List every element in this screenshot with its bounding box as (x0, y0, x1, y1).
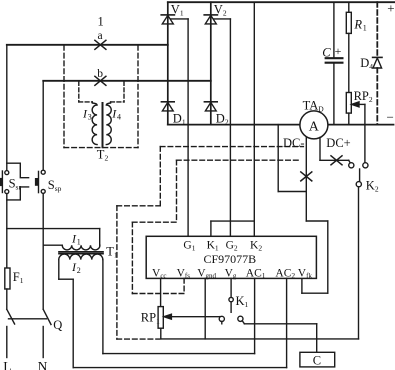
big controller dashed box (117, 147, 304, 340)
svg-text:1: 1 (77, 238, 81, 247)
svg-text:+: + (387, 1, 394, 16)
T2 inner dashed connections (79, 82, 124, 102)
pushbutton S_sp (35, 170, 45, 309)
svg-text:C: C (313, 353, 321, 367)
potentiometer RP2 (346, 93, 365, 163)
svg-text:DC-: DC- (283, 136, 305, 150)
svg-text:+: + (335, 44, 342, 58)
pushbutton S_sr (0, 163, 29, 268)
wire K2 riser from + bus to chip pin K2 (253, 2, 255, 236)
contact circle K1 right to C box (238, 316, 317, 352)
thyristor V2 (204, 15, 217, 24)
wire V1 gate to G1 (171, 19, 188, 236)
wire S_sr column from a-line (6, 45, 8, 171)
wire top (+) bus (168, 1, 395, 3)
svg-text:−: − (387, 109, 394, 124)
switch K2 (161, 169, 362, 339)
terminal X b (95, 76, 106, 85)
svg-text:4: 4 (117, 113, 121, 122)
connector contact circles DC+ / RP2 (349, 163, 354, 168)
box C (300, 352, 335, 367)
terminal X DC- (301, 172, 312, 181)
svg-text:Q: Q (53, 318, 62, 332)
wire a-line (7, 44, 168, 46)
T1 winding I2 (59, 254, 103, 260)
svg-text:1: 1 (363, 23, 367, 32)
T2 winding I4 (106, 102, 111, 145)
svg-text:L: L (3, 359, 11, 370)
wire V2-D2 column (210, 2, 212, 124)
switch K1 blade from Vg (229, 278, 233, 312)
thyristor V1 (161, 15, 174, 24)
svg-text:1: 1 (98, 15, 104, 29)
wire DC+ sense (320, 137, 350, 162)
terminal X a (95, 40, 106, 49)
wire negative bus (168, 124, 394, 126)
wire DC- sense (278, 125, 328, 294)
svg-text:A: A (309, 120, 320, 135)
diode D1 (161, 102, 174, 111)
capacitor C branch (326, 2, 343, 124)
inner trigger dashed box (132, 160, 301, 293)
diode D4 on dashed branch (373, 2, 382, 124)
knife switch Q (7, 309, 51, 357)
diode D2 (204, 102, 217, 111)
svg-text:a: a (98, 30, 103, 42)
svg-text:CF97077B: CF97077B (204, 252, 257, 266)
contact circle RP1 wiper (219, 316, 224, 324)
ammeter TAD circle (300, 111, 328, 139)
svg-text:2: 2 (77, 266, 81, 275)
T1 core (59, 252, 103, 254)
transformer T2 dashed shield box (64, 46, 138, 148)
node 1 label (0, 0, 1, 1)
wire S_sp column from b-line (42, 81, 44, 170)
transformer T1 primary tap wires (7, 229, 100, 246)
wire AC1 to T1 secondary right (103, 260, 255, 354)
svg-text:C: C (322, 46, 331, 60)
chip CF97077B box (146, 236, 316, 278)
wire AC2 to T1 secondary left (59, 260, 287, 368)
svg-text:3: 3 (88, 113, 92, 122)
wire V2 gate to G2 (214, 19, 231, 236)
svg-text:R: R (353, 17, 362, 31)
svg-text:DC+: DC+ (326, 136, 350, 150)
wire b-line (43, 80, 211, 82)
wire V1-D1 column (167, 2, 169, 124)
T2 core (102, 103, 104, 147)
potentiometer RP1 (158, 307, 221, 339)
chip pin labels (152, 240, 312, 281)
svg-text:N: N (38, 359, 48, 370)
resistor R1 (346, 2, 351, 92)
wire K1 riser (211, 221, 254, 236)
svg-text:b: b (97, 68, 103, 80)
terminal X DC+ (331, 156, 342, 165)
wire Vgnd down (204, 278, 206, 339)
T1 winding I1 (62, 245, 100, 250)
T2 winding I3 (92, 102, 97, 145)
wire Vcc to RP1 (160, 278, 162, 306)
fuse F1 (5, 268, 10, 309)
